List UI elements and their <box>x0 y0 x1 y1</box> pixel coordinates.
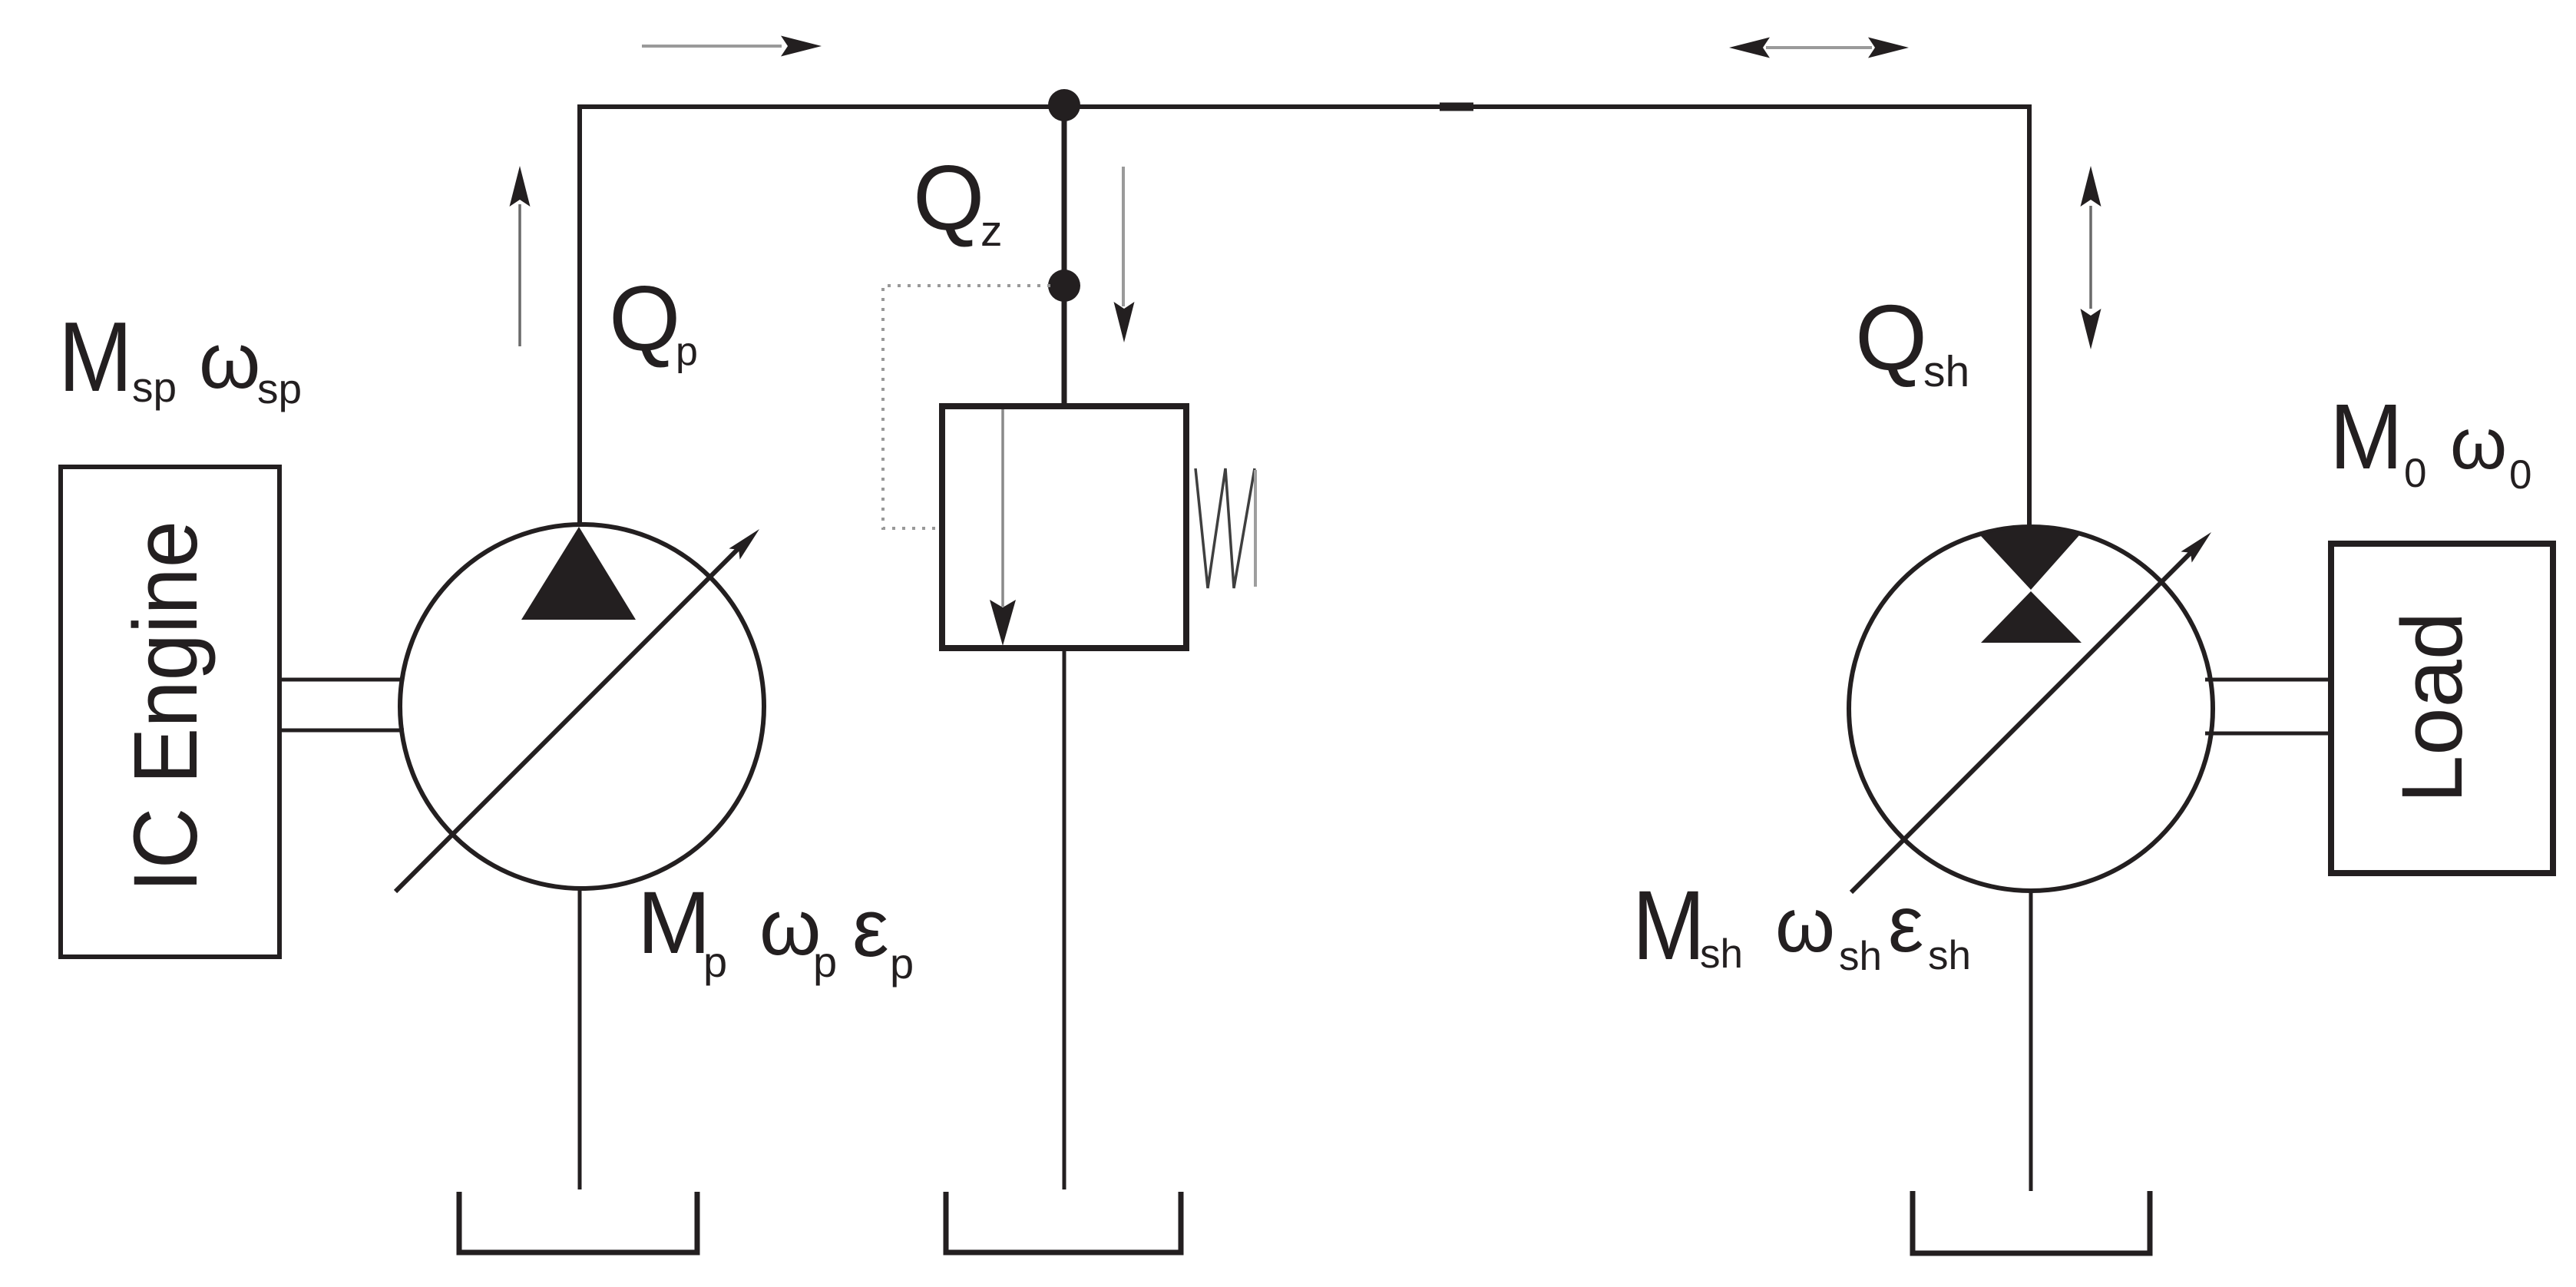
tank T2 (under relief valve) <box>946 1192 1181 1252</box>
pilot line dotted to relief valve <box>883 286 1050 528</box>
flow arrow top right double shaft <box>1766 46 1872 49</box>
svg-text:sh: sh <box>1928 933 1971 978</box>
shaft motor to load (lower line) <box>2205 732 2334 736</box>
svg-text:ε: ε <box>852 882 889 974</box>
flow arrow left vertical up head <box>510 166 531 207</box>
shaft IC engine to pump (upper line) <box>279 678 404 682</box>
tank T1 (under pump) <box>459 1192 697 1252</box>
flow arrow top left head <box>781 36 822 57</box>
wire thick tick segment on top line <box>1440 103 1473 111</box>
svg-text:0: 0 <box>2509 452 2531 498</box>
flow arrow right vertical double down head <box>2081 309 2101 349</box>
svg-text:M: M <box>2330 385 2403 488</box>
label M_sh w_sh e_sh <box>1632 870 1971 981</box>
label Q_sh <box>1855 285 1969 396</box>
relief valve internal flow line <box>1001 409 1004 607</box>
flow arrow top left (Qp direction) shaft <box>642 45 782 48</box>
pump P1 variable displacement arrowhead <box>729 529 759 560</box>
svg-text:Q: Q <box>1855 285 1927 389</box>
svg-text:Q: Q <box>913 147 984 250</box>
relief valve spring end bar <box>1254 470 1257 587</box>
svg-text:M: M <box>637 874 711 972</box>
flow arrow right vertical double up head <box>2081 166 2101 207</box>
svg-text:ε: ε <box>1888 880 1923 969</box>
svg-text:p: p <box>813 938 837 986</box>
label Q_p <box>609 267 698 374</box>
relief valve spring <box>1195 468 1255 588</box>
svg-text:Load: Load <box>2384 612 2480 803</box>
motor M1 bowtie lower triangle <box>1981 591 2082 643</box>
svg-text:z: z <box>980 207 1003 256</box>
Load box <box>2331 544 2553 873</box>
svg-text:M: M <box>58 302 133 412</box>
pump P1 flow triangle <box>521 527 636 620</box>
svg-text:M: M <box>1632 870 1705 981</box>
wire motor to tank T3 <box>2029 891 2033 1191</box>
svg-text:sp: sp <box>132 363 177 411</box>
shaft IC engine to pump (lower line) <box>279 729 404 733</box>
tank T3 (under motor) <box>1913 1191 2150 1253</box>
svg-text:ω: ω <box>199 316 260 405</box>
svg-text:0: 0 <box>2404 451 2426 496</box>
label M_sp w_sp <box>58 302 302 412</box>
svg-text:ω: ω <box>2450 403 2507 485</box>
flow arrow top right double right head <box>1868 38 1909 58</box>
relief valve V1 body <box>942 406 1186 648</box>
flow arrow right vertical double shaft <box>2089 206 2092 309</box>
pump P1 variable displacement arrow shaft <box>395 548 739 892</box>
label M_0 w_0 <box>2330 385 2531 498</box>
label M_p w_p e_p <box>637 874 914 988</box>
motor M1 variable displacement arrow shaft <box>1851 552 2191 892</box>
pump P1 circle (variable displacement pump) <box>400 524 764 888</box>
wire main loop: pump outlet up, across top, down to motor <box>580 107 2029 529</box>
motor M1 variable displacement arrowhead <box>2181 532 2211 563</box>
svg-text:sh: sh <box>1839 934 1882 979</box>
flow arrow Qz down shaft <box>1122 167 1125 306</box>
wire junction to relief valve <box>1062 107 1067 406</box>
IC Engine box <box>61 467 279 957</box>
svg-text:p: p <box>676 329 698 374</box>
svg-text:Q: Q <box>609 267 680 370</box>
motor M1 bowtie upper triangle <box>1980 528 2080 590</box>
label Q_z <box>913 147 1003 256</box>
shaft motor to load (upper line) <box>2205 678 2334 682</box>
node junction dot 1 (tee to relief valve) <box>1048 89 1080 121</box>
svg-text:sh: sh <box>1923 347 1969 396</box>
svg-text:ω: ω <box>1775 882 1835 968</box>
svg-text:sh: sh <box>1700 931 1743 977</box>
svg-text:IC Engine: IC Engine <box>115 521 217 892</box>
svg-text:sp: sp <box>257 365 302 412</box>
node junction dot 2 (pilot tap) <box>1048 270 1080 302</box>
motor M1 circle (variable displacement motor) <box>1849 527 2213 891</box>
wire pump to tank T1 <box>578 889 582 1189</box>
flow arrow top right double left head <box>1729 38 1770 58</box>
svg-text:p: p <box>703 938 727 986</box>
svg-text:p: p <box>890 939 914 988</box>
svg-text:ω: ω <box>759 883 821 971</box>
relief valve internal arrowhead <box>990 600 1016 646</box>
wire relief valve to tank T2 <box>1063 648 1066 1189</box>
flow arrow left vertical up shaft <box>518 204 521 346</box>
flow arrow Qz down head <box>1114 302 1135 342</box>
